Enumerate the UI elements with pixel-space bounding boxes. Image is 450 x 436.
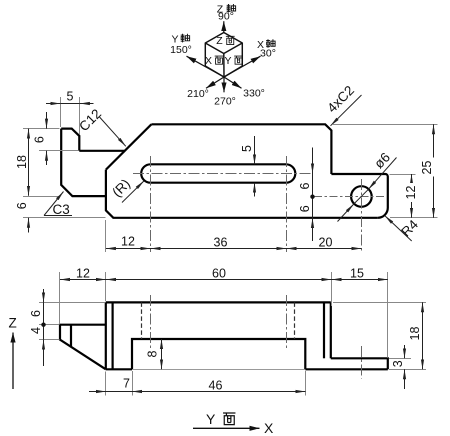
svg-text:Z: Z [9, 316, 17, 331]
notch floor thin line [132, 369, 305, 371]
svg-text:20: 20 [319, 235, 333, 249]
dim 8 (notch) [161, 339, 163, 369]
bottom left segment [106, 368, 132, 370]
svg-text:18: 18 [15, 155, 29, 169]
left block [60, 325, 106, 370]
svg-text:5: 5 [67, 90, 74, 104]
label phi6 with leader through hole [338, 158, 397, 222]
label Y axis [170, 33, 192, 56]
dim 12 (right, tab height) [411, 174, 413, 218]
plan bottom dims 12/36/20 [106, 248, 362, 250]
front outline [60, 302, 388, 369]
C3 edge [70, 325, 72, 347]
dim 3 (plate) [404, 345, 406, 389]
plan outline [61, 124, 388, 218]
svg-text:X: X [264, 420, 274, 436]
label R4 with leader [385, 216, 412, 241]
main bar top edge [106, 301, 331, 303]
svg-text:18: 18 [408, 327, 422, 341]
svg-text:6: 6 [29, 310, 43, 317]
svg-text:15: 15 [350, 266, 364, 280]
label X axis [257, 39, 276, 60]
svg-text:150°: 150° [170, 44, 192, 56]
label C3 with leader [44, 192, 72, 216]
dim 6 (lower left) [28, 218, 30, 233]
Z axis arrow (left) [12, 333, 14, 390]
svg-text:12: 12 [76, 266, 90, 280]
main top edge [151, 124, 331, 174]
svg-text:46: 46 [209, 379, 223, 393]
front bottom dims 7/46 [89, 391, 306, 393]
dim 6/6 (right of slot) [312, 148, 314, 242]
svg-text:330°: 330° [243, 87, 265, 99]
plan extension lines [23, 97, 438, 252]
svg-text:30°: 30° [260, 48, 276, 60]
front left dims 6/4 [43, 289, 45, 366]
cube [205, 33, 242, 78]
face label X [205, 55, 223, 67]
label 4xC2 with leader [331, 95, 362, 126]
svg-text:C3: C3 [53, 202, 70, 217]
svg-text:Y: Y [224, 55, 231, 67]
front extension lines [39, 272, 426, 396]
svg-text:Y: Y [206, 411, 216, 427]
protrusion left edge and C3 [61, 129, 106, 197]
bottom right segment [305, 368, 388, 370]
label Z axis [217, 4, 236, 23]
svg-text:12: 12 [404, 186, 418, 200]
svg-text:6: 6 [33, 136, 47, 143]
svg-text:4: 4 [29, 327, 43, 334]
svg-text:210°: 210° [187, 88, 209, 100]
protrusion top edge [61, 129, 79, 151]
slot left vertical centerline [150, 156, 152, 252]
svg-text:60: 60 [212, 266, 226, 280]
tab with R4 corner [331, 174, 387, 218]
svg-text:6: 6 [298, 182, 312, 189]
svg-text:90°: 90° [218, 10, 234, 22]
svg-text:25: 25 [420, 161, 434, 175]
dim 18 (left) [28, 129, 30, 196]
face label Y [224, 55, 242, 67]
dim 5 (slot width) [254, 136, 256, 197]
svg-text:270°: 270° [214, 95, 236, 107]
svg-text:8: 8 [146, 350, 160, 357]
hole vertical centerline [361, 179, 363, 252]
hole [351, 186, 372, 207]
right chamfer edges [323, 302, 325, 358]
bottom plate [331, 358, 388, 369]
hole horizontal centerline [314, 196, 384, 198]
dim 6 (upper left) [46, 112, 48, 165]
slot [141, 164, 295, 182]
svg-text:6: 6 [15, 202, 29, 209]
notch [132, 339, 305, 369]
dim 5 (top, protrusion) [46, 103, 94, 105]
front centerlines [151, 295, 362, 379]
svg-text:5: 5 [240, 145, 254, 152]
svg-text:6: 6 [298, 205, 312, 212]
face label Z [216, 35, 234, 47]
slot right vertical centerline [286, 156, 288, 252]
svg-text:7: 7 [123, 377, 130, 391]
label C12 with leader [100, 117, 126, 146]
label (R) with leader [122, 181, 144, 203]
label 210 270 330 [187, 87, 265, 107]
svg-text:12: 12 [121, 235, 135, 249]
C12 chamfer [106, 124, 151, 169]
dim 18 (front right) [422, 302, 424, 369]
svg-text:X: X [205, 55, 212, 67]
axis arrows [187, 21, 261, 92]
slot horizontal centerline [133, 173, 311, 175]
bottom edge [106, 170, 378, 218]
step edge y=150.8 [79, 150, 124, 152]
svg-text:3: 3 [391, 360, 405, 367]
svg-text:Z: Z [216, 35, 223, 47]
Y-men title with X arrow [193, 411, 274, 436]
hidden lines slot [142, 302, 295, 339]
svg-text:36: 36 [214, 235, 228, 249]
front top dims 12/60/15 [60, 279, 388, 281]
dim 25 (right overall) [433, 124, 435, 218]
bar left edges [105, 302, 107, 369]
